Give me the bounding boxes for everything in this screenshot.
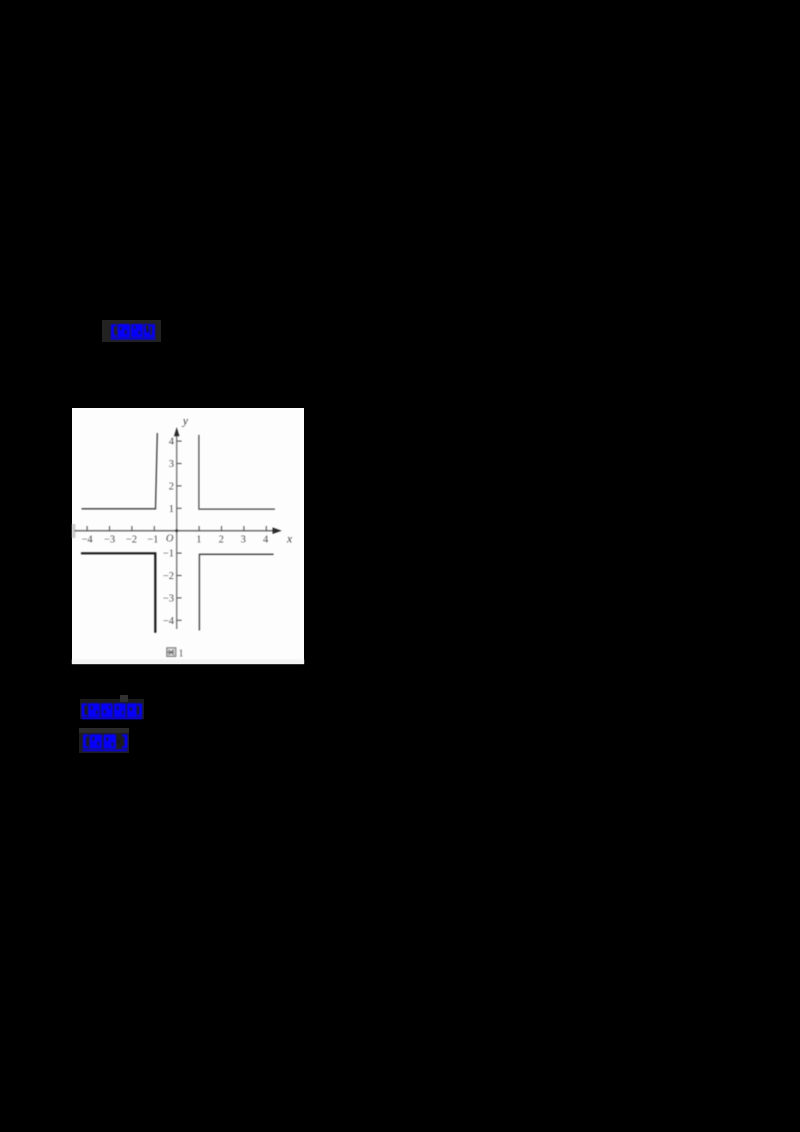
y ticks — [177, 441, 182, 620]
char blob 2 — [131, 324, 143, 337]
svg-text:2: 2 — [169, 481, 174, 492]
curve top-left branch — [82, 433, 158, 509]
y axis — [176, 434, 178, 629]
svg-text:1: 1 — [196, 535, 201, 546]
curve bottom-right branch — [199, 554, 273, 630]
svg-text:x: x — [286, 534, 293, 546]
axis labels — [82, 535, 269, 546]
x ticks — [87, 526, 266, 531]
svg-text:y: y — [182, 416, 189, 428]
ring glyph (0) — [144, 324, 150, 337]
svg-text:1: 1 — [178, 649, 183, 660]
char blob 1 — [118, 324, 131, 337]
svg-text:−3: −3 — [163, 593, 174, 604]
svg-text:3: 3 — [241, 535, 246, 546]
left bracket 【 — [111, 324, 117, 337]
caption 图1 — [167, 648, 176, 657]
svg-text:−3: −3 — [104, 535, 115, 546]
link box 2 (blue 【知识点】) — [80, 699, 144, 719]
link box 1 (blue 【例10】 with dark grey highlight) — [102, 320, 161, 342]
origin dot — [175, 529, 178, 532]
svg-text:2: 2 — [219, 535, 224, 546]
svg-text:−1: −1 — [163, 549, 174, 560]
right bracket 】 — [150, 324, 155, 337]
svg-text:4: 4 — [263, 535, 269, 546]
underline — [111, 338, 156, 340]
curve top-right branch — [199, 435, 275, 509]
y axis arrow — [174, 427, 180, 436]
x axis — [75, 530, 277, 532]
svg-text:4: 4 — [169, 437, 175, 448]
svg-text:−4: −4 — [163, 616, 175, 627]
svg-text:1: 1 — [169, 504, 174, 515]
x axis arrow — [273, 527, 282, 534]
scan smudge left edge — [72, 524, 76, 538]
svg-text:−1: −1 — [147, 535, 158, 546]
svg-text:−4: −4 — [82, 535, 94, 546]
svg-text:3: 3 — [169, 459, 174, 470]
curve bottom-left branch (thick) — [81, 553, 155, 632]
svg-text:−2: −2 — [163, 571, 174, 582]
svg-text:−2: −2 — [126, 535, 137, 546]
figure: white scanned graph image — [72, 408, 304, 664]
svg-text:O: O — [166, 534, 174, 545]
scan band bottom edge — [72, 660, 304, 665]
link box 3 (blue 【答案】) — [79, 728, 129, 753]
